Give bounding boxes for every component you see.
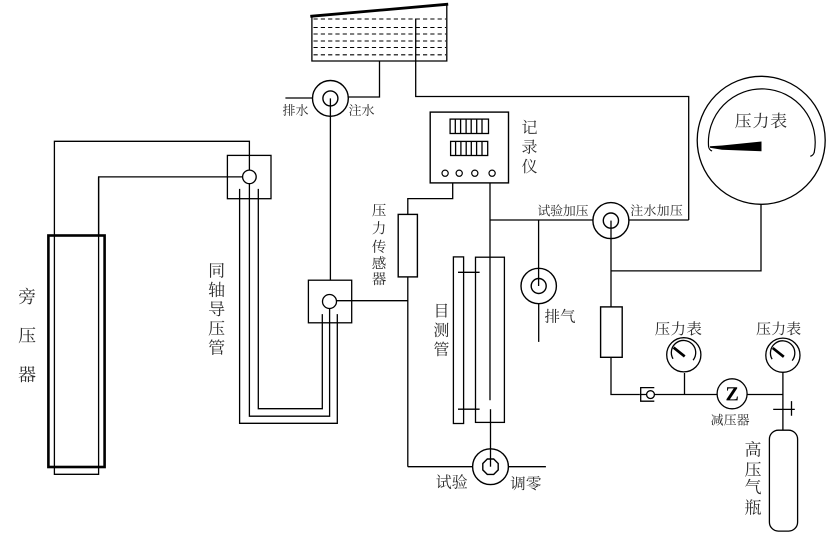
coaxial tube outer U: [240, 189, 338, 423]
wire: probe center tube to junction box top: [54, 141, 249, 235]
label: big pressure gauge: [735, 113, 786, 129]
pressuremeter probe (pangyaqi) body: [48, 236, 104, 468]
wire: main test line y=220: [490, 219, 593, 221]
level mark bottom: [458, 408, 480, 410]
check valve bracket: [641, 388, 655, 402]
pressure stabilizer body: [601, 307, 623, 357]
wire: reducer to bottle line: [747, 394, 783, 396]
label: exhaust: [545, 309, 575, 323]
valve: test / zero-adjust: [473, 449, 509, 485]
label: pangyaqi probe: [19, 288, 36, 383]
wire: drain stub left of valve: [285, 97, 312, 99]
label: test pressurize: [538, 204, 588, 216]
wire: sensor down to test/zero valve line: [407, 277, 409, 467]
level mark top: [458, 271, 480, 273]
label: fill water: [349, 104, 374, 116]
label: gauge right: [757, 321, 801, 335]
wire: fill valve down through stabilizer: [610, 221, 612, 307]
measuring tube right: [476, 257, 505, 422]
wire: tube drain to test/zero valve: [490, 409, 492, 467]
wire: left of test valve: [408, 466, 473, 468]
wire: exhaust open end: [538, 304, 540, 342]
wire: probe annulus to junction box left: [99, 177, 243, 237]
left gauge needle: [674, 348, 685, 357]
reducer letter Z: [726, 387, 737, 400]
wire: drain/fill valve down to coaxial junction box: [329, 98, 331, 280]
wire: lower junction to sensor line: [337, 300, 408, 302]
bottle valve cross mark: [773, 401, 795, 416]
big gauge needle: [710, 142, 762, 152]
small pressure gauge left: [667, 338, 701, 372]
probe inner sleeve: [54, 178, 98, 475]
valve: exhaust (paiqi): [521, 268, 556, 303]
recorder knobs: [442, 170, 495, 176]
wire: big gauge stem to branch: [611, 204, 761, 271]
high pressure gas bottle: [769, 430, 797, 531]
label: water-fill pressurize: [631, 204, 683, 216]
recorder display 1: [450, 119, 488, 133]
valve: drain/fill (paishui/zhushui): [313, 81, 349, 117]
label: recorder: [522, 120, 537, 174]
lower junction circle: [323, 295, 337, 309]
water tank: [312, 5, 447, 61]
pressure reducer Z: [717, 379, 747, 409]
valve: fill pressurize: [593, 203, 629, 239]
wire: tank bottom to fill-water stub: [348, 61, 379, 97]
label: test: [436, 474, 467, 489]
recorder display 2: [451, 141, 488, 155]
coaxial tube inner U: [258, 189, 322, 409]
wire: gauge to bottle: [782, 373, 784, 431]
label: high pressure gas bottle: [745, 441, 761, 515]
recorder instrument box: [430, 112, 508, 183]
label: sight tube: [434, 304, 449, 357]
tank water dashed lines: [314, 19, 447, 55]
small pressure gauge right: [766, 338, 800, 372]
wire: recorder down to measuring tube: [489, 183, 491, 400]
label: coaxial pressure tube: [209, 263, 225, 355]
wire: recorder to pressure sensor: [408, 183, 453, 215]
upper junction circle: [243, 170, 257, 184]
label: pressure sensor: [372, 204, 386, 286]
big pressure gauge outer: [697, 76, 825, 204]
wire: stabilizer to gas line corner: [611, 357, 640, 394]
big gauge arc end hooks: [709, 146, 815, 156]
right gauge needle: [773, 348, 784, 357]
label: drain water: [283, 104, 308, 116]
gauge stem left: [684, 373, 686, 395]
coaxial tube middle U: [249, 183, 329, 416]
tank top slanted lid: [310, 4, 448, 16]
label: gauge left: [655, 321, 701, 335]
lower junction box: [308, 280, 351, 323]
wire: fill-pressure valve to right corner: [629, 219, 689, 221]
upper junction box: [227, 155, 271, 198]
wire: check valve to reducer: [640, 394, 717, 396]
big gauge inner arc: [708, 89, 815, 153]
label: zero adjust: [511, 476, 541, 490]
check valve circle: [647, 391, 655, 399]
pressure sensor body: [398, 214, 417, 277]
wire: tank dip tube to right corner down to fill-pressure line: [416, 19, 689, 221]
wire: zero-adjust open end: [508, 466, 546, 468]
label: reducer: [711, 414, 749, 426]
measuring tube left: [453, 257, 463, 424]
wire: exhaust stub: [538, 220, 540, 286]
